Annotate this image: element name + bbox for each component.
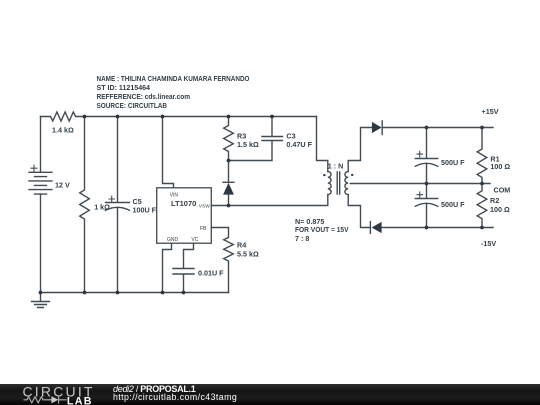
svg-text:0.47U F: 0.47U F (286, 140, 312, 149)
svg-text:12 V: 12 V (55, 180, 70, 189)
svg-text:5.5 kΩ: 5.5 kΩ (237, 250, 259, 259)
svg-text:100 Ω: 100 Ω (490, 205, 510, 214)
svg-text:R4: R4 (237, 241, 246, 250)
svg-text:R2: R2 (490, 196, 499, 205)
svg-text:NAME : THILINA CHAMINDA KUMARA: NAME : THILINA CHAMINDA KUMARA FERNANDO (97, 74, 250, 83)
svg-text:LT1070: LT1070 (171, 199, 196, 208)
svg-text:7 : 8: 7 : 8 (295, 234, 309, 243)
svg-text:1.5 kΩ: 1.5 kΩ (237, 140, 259, 149)
svg-text:REFFERENCE: cds.linear.com: REFFERENCE: cds.linear.com (97, 92, 191, 101)
svg-text:1.4 kΩ: 1.4 kΩ (52, 125, 74, 134)
svg-text:FOR VOUT = 15V: FOR VOUT = 15V (295, 225, 349, 234)
svg-text:VIN: VIN (170, 192, 179, 198)
svg-text:VC: VC (191, 237, 198, 243)
svg-text:1 : N: 1 : N (328, 162, 344, 171)
svg-text:500U F: 500U F (441, 158, 465, 167)
svg-text:VSW: VSW (199, 204, 210, 210)
svg-text:R3: R3 (237, 131, 246, 140)
svg-text:SOURCE: CIRCUITLAB: SOURCE: CIRCUITLAB (97, 101, 168, 110)
svg-text:FB: FB (200, 226, 207, 232)
svg-text:100U F: 100U F (133, 205, 157, 214)
svg-text:+15V: +15V (482, 107, 499, 116)
svg-text:0.01U F: 0.01U F (198, 268, 224, 277)
svg-text:C3: C3 (286, 131, 295, 140)
svg-text:LAB: LAB (67, 395, 93, 405)
svg-text:500U F: 500U F (441, 200, 465, 209)
svg-text:GND: GND (167, 237, 179, 243)
svg-text:COM: COM (494, 185, 511, 194)
svg-text:1 kΩ: 1 kΩ (94, 202, 110, 211)
svg-text:ST ID: 11215464: ST ID: 11215464 (97, 83, 151, 92)
svg-text:-15V: -15V (481, 239, 496, 248)
svg-text:100 Ω: 100 Ω (490, 162, 510, 171)
